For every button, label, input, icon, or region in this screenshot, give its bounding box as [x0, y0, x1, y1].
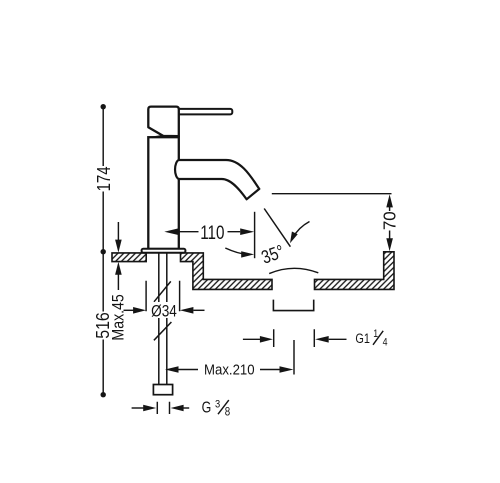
svg-text:Max.210: Max.210	[204, 361, 255, 378]
countertop right + basin step + basin bottom left	[181, 253, 273, 290]
dimension 174 top dot	[101, 104, 106, 109]
svg-text:8: 8	[225, 406, 230, 419]
supply pipe right line	[166, 253, 168, 385]
drain dome arc	[269, 268, 318, 273]
svg-text:174: 174	[93, 166, 114, 191]
dimension 174 text	[93, 166, 114, 191]
countertop left slab	[112, 253, 146, 262]
svg-text:4: 4	[383, 337, 388, 349]
dimension 516 text	[92, 312, 113, 339]
G3/8 connector	[153, 385, 172, 395]
dimension 174 bottom dot	[101, 249, 106, 254]
dimension G3/8 right arrow	[183, 407, 189, 409]
dimension O34 left arrow	[124, 309, 135, 311]
basin bottom right + right wall	[315, 252, 395, 290]
drain tailpiece	[273, 300, 313, 311]
hose break diagonal upper	[154, 281, 171, 301]
dimension 516 bottom dot	[101, 392, 106, 397]
35 degree angle arc arrow	[225, 248, 247, 254]
35 degree leader arrow	[293, 222, 310, 238]
svg-text:3: 3	[215, 399, 220, 411]
35 degree stream line	[264, 209, 290, 247]
dimension O34 extension lines	[146, 281, 180, 312]
dimension Max.210 text	[204, 361, 255, 378]
dimension G1 1/4 left arrow	[243, 338, 261, 340]
base plate	[142, 249, 186, 253]
svg-text:Max.45: Max.45	[110, 294, 128, 340]
svg-text:Ø34: Ø34	[151, 302, 177, 321]
dimension G1 1/4 extension lines	[274, 329, 315, 347]
dimension Max.210 line and arrows	[178, 369, 198, 371]
35 degree text	[259, 241, 287, 268]
faucet body	[148, 137, 179, 249]
svg-text:G: G	[202, 398, 212, 416]
dimension O34 text	[150, 302, 179, 318]
dimension 110 extension line	[254, 212, 256, 258]
dimension 110 line and arrows	[178, 231, 240, 233]
spout	[175, 160, 259, 199]
spout height reference line	[272, 193, 392, 195]
dimension Max.45 upper arrow	[117, 222, 119, 241]
dimension G3/8 left arrow	[132, 407, 144, 409]
dimension Max.45 text	[110, 294, 128, 340]
cartridge wedge line	[152, 136, 163, 138]
hose break diagonal lower	[154, 322, 172, 340]
supply pipe left line	[158, 253, 160, 385]
svg-text:110: 110	[200, 221, 224, 243]
dimension Max.45 lower arrow	[117, 273, 119, 290]
dimension O34 right arrow	[193, 309, 204, 311]
svg-text:70: 70	[379, 211, 399, 230]
G1 1/4 label	[355, 331, 370, 347]
dimension 70 arrows	[386, 194, 393, 207]
dimension 516 line	[102, 252, 104, 395]
svg-text:G1: G1	[355, 331, 370, 347]
dimension 110 text	[200, 221, 224, 243]
dimension 70 text	[379, 211, 399, 230]
dimension 174 line	[102, 107, 104, 252]
G3/8 label	[202, 398, 212, 416]
dimension G3/8 ticks	[157, 402, 169, 414]
dimension Max.210 extension line	[293, 340, 295, 375]
cartridge head	[148, 107, 179, 137]
lever handle	[177, 109, 232, 115]
dimension G1 1/4 right arrow	[329, 338, 347, 340]
